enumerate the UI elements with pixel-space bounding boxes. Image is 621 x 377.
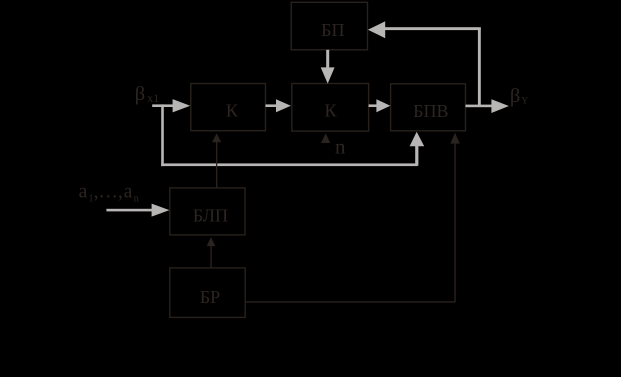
block К2 [292,84,369,132]
svg-text:,…,: ,…, [94,182,123,203]
arrowhead into К1 bottom (dark) [212,133,221,142]
wire feedback top horizontal to БП [382,27,481,30]
svg-text:β: β [135,83,145,105]
svg-text:a: a [79,182,88,203]
arrowhead into БПВ left [376,99,390,112]
wire input βх1 to К1 [152,104,177,107]
wire К2 to БПВ [369,104,378,107]
arrowhead into БЛП left [152,204,170,217]
wire horizontal feedback to БПВ [161,163,418,166]
block БЛП [170,188,245,235]
wire БЛП up to К1 (dark) [216,142,217,188]
arrowhead into БЛП bottom (dark) [207,237,216,246]
block БП [291,2,367,50]
wire feedback vertical from output node up [478,28,481,107]
svg-text:n: n [134,194,140,205]
arrowhead into К1 left [173,99,191,112]
svg-text:БР: БР [200,287,220,307]
arrowhead into БП right [368,21,385,38]
wire БПВ to output [466,105,493,108]
svg-text:БЛП: БЛП [193,206,228,226]
wire vertical up to БПВ bottom (dark) [454,143,455,302]
svg-text:БП: БП [321,20,344,40]
block К1 [191,84,266,131]
wire БР right to БПВ (dark), horizontal [245,301,455,302]
block БПВ [391,84,466,131]
label βх1 input [135,83,159,105]
svg-text:К: К [324,101,337,121]
wire branch down from input node [161,104,164,166]
svg-text:β: β [510,85,520,107]
wire К1 to К2 [266,104,278,107]
arrowhead n into К2 bottom (dark) [321,133,330,143]
label a1,...,an [79,182,140,205]
arrowhead into БПВ bottom (dark) [450,133,460,144]
svg-text:a: a [124,182,133,203]
svg-text:Y: Y [521,97,528,107]
arrowhead into БПВ bottom (gray) [410,132,425,147]
svg-text:х1: х1 [147,91,159,105]
svg-text:n: n [335,134,346,158]
label βY output [510,85,529,107]
arrowhead into К2 left [276,99,291,112]
arrowhead output βY [491,99,509,113]
wire a-inputs to БЛП [106,209,152,212]
svg-text:К: К [226,101,239,121]
block БР [170,268,245,318]
wire БР up to БЛП (dark) [210,245,211,268]
arrowhead into К2 top [321,67,335,83]
wire vertical up into БПВ bottom [415,146,418,166]
wire БП down to К2 [326,50,329,69]
svg-text:БПВ: БПВ [413,101,448,121]
